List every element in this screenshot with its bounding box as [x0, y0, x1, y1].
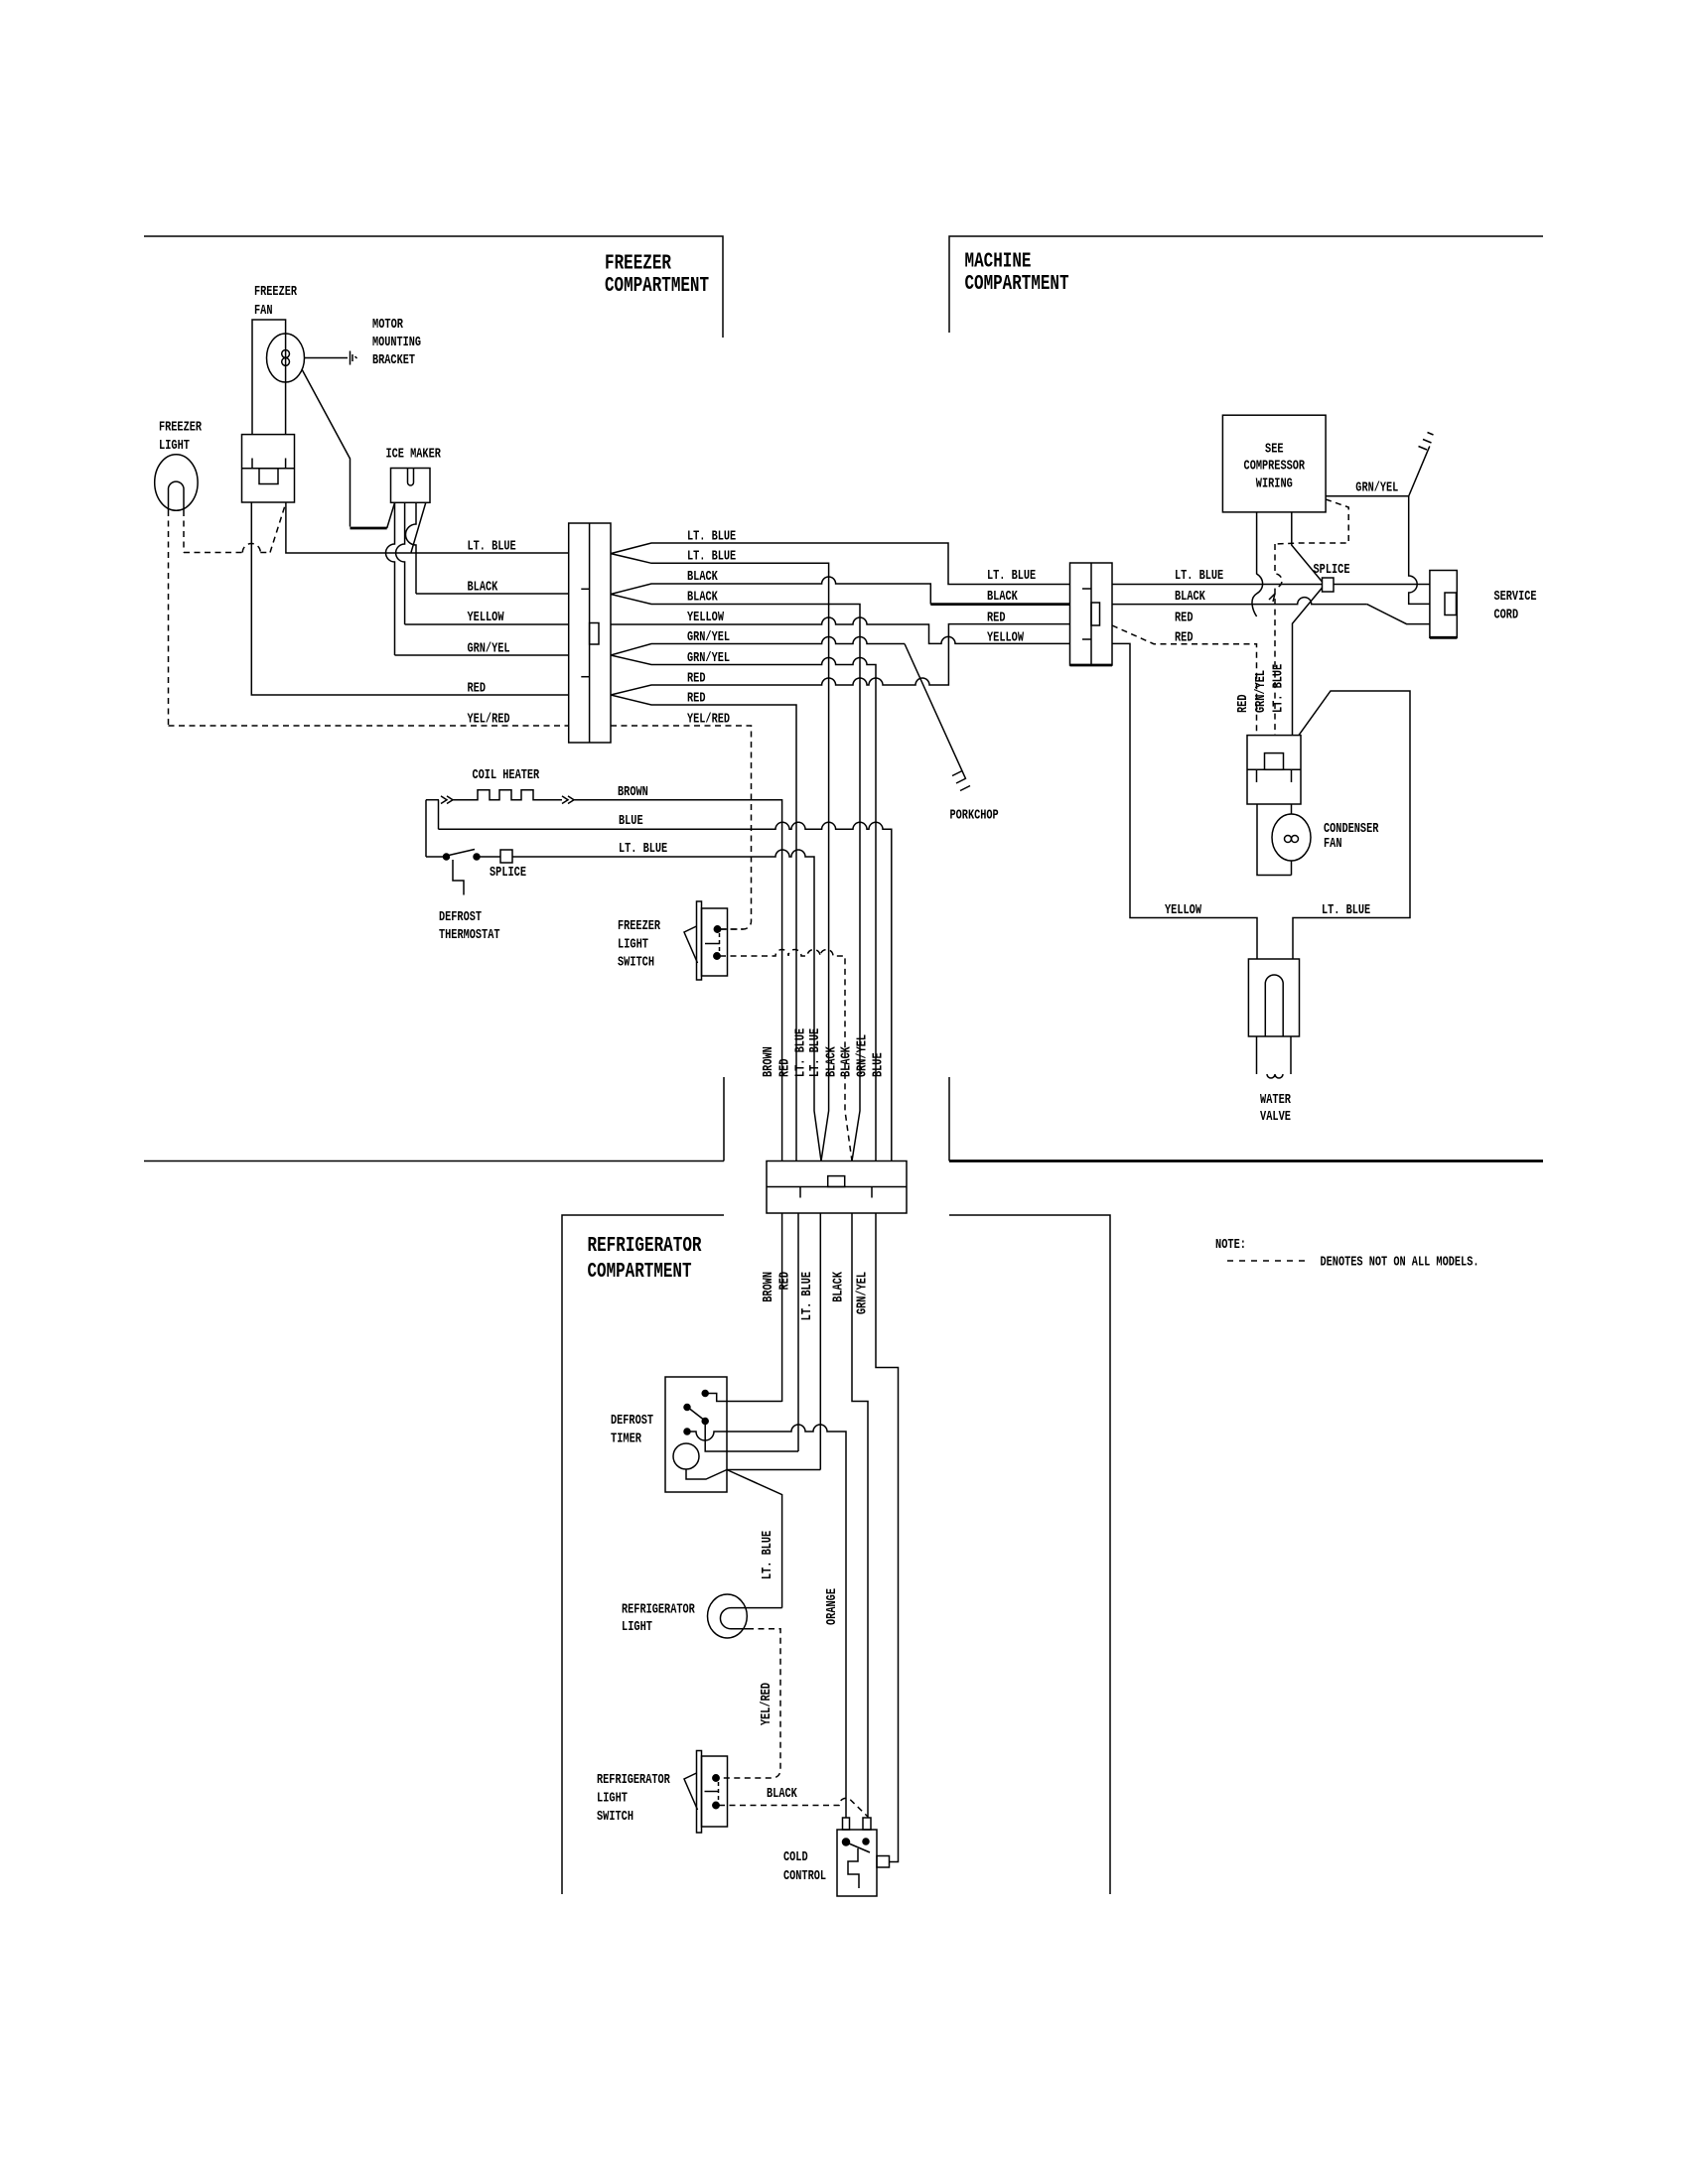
label RED left [468, 682, 487, 697]
wire freezer light switch top pin dashed [720, 928, 744, 930]
label DENOTES NOT ON ALL MODELS [1321, 1256, 1479, 1271]
refrigerator light L2 [622, 1594, 782, 1638]
label REFRIGERATOR COMPARTMENT [588, 1235, 702, 1284]
svg-text:COIL HEATER: COIL HEATER [473, 768, 540, 783]
svg-text:LT. BLUE: LT. BLUE [619, 842, 667, 857]
label LT. BLUE flag2 [687, 550, 736, 565]
svg-text:CONTROL: CONTROL [783, 1869, 826, 1884]
svg-text:NOTE:: NOTE: [1215, 1238, 1246, 1253]
note dashed sample [1227, 1260, 1309, 1262]
svg-text:LT. BLUE: LT. BLUE [761, 1531, 775, 1579]
label GRN/YEL flag1 [687, 630, 730, 645]
svg-text:CORD: CORD [1494, 609, 1519, 623]
wire LT. BLUE flag lower [611, 554, 829, 1161]
wire LT. BLUE flag upper [611, 543, 1070, 585]
svg-text:MOUNTING: MOUNTING [372, 336, 421, 350]
svg-text:FREEZER: FREEZER [254, 285, 298, 300]
wire BLUE [439, 800, 892, 1161]
svg-text:SERVICE: SERVICE [1494, 590, 1537, 605]
svg-text:BLACK: BLACK [1175, 590, 1205, 605]
wire GRN/YEL flag upper to porkchop [611, 637, 905, 656]
svg-text:LT. BLUE: LT. BLUE [808, 1028, 823, 1077]
svg-text:GRN/YEL: GRN/YEL [1254, 670, 1269, 713]
svg-text:WATER: WATER [1260, 1093, 1292, 1108]
svg-text:COMPRESSOR: COMPRESSOR [1244, 460, 1306, 475]
label LT. BLUE rot above2 [808, 1028, 823, 1077]
svg-text:YELLOW: YELLOW [687, 611, 725, 625]
svg-text:LIGHT: LIGHT [597, 1792, 628, 1807]
label YEL/RED rot [760, 1683, 774, 1725]
label BLUE rot above [871, 1052, 886, 1077]
label LT. BLUE left [468, 540, 516, 555]
wire LT. BLUE compressor loop [1293, 691, 1410, 959]
defrost timer box T1 [611, 1377, 727, 1492]
wire freezer light to fan relay (dashed) [184, 503, 286, 553]
svg-text:SWITCH: SWITCH [597, 1810, 633, 1825]
label YELLOW left [468, 611, 505, 625]
wire GRN/YEL compressor ground [1326, 433, 1433, 496]
svg-text:YELLOW: YELLOW [468, 611, 505, 625]
svg-text:CONDENSER: CONDENSER [1324, 822, 1379, 837]
svg-text:LIGHT: LIGHT [618, 938, 648, 953]
label LT. BLUE machine left [987, 569, 1036, 584]
label GRN/YEL left [468, 642, 510, 657]
label RED rot below [778, 1272, 793, 1291]
label GRN/YEL rot above [856, 1034, 871, 1077]
wire BLACK diagonal to service cord [1367, 605, 1430, 624]
svg-text:YEL/RED: YEL/RED [760, 1683, 774, 1725]
wire RED flag upper [611, 624, 1070, 695]
svg-text:LT. BLUE: LT. BLUE [1322, 903, 1370, 918]
svg-text:RED: RED [687, 672, 706, 687]
svg-text:DEFROST: DEFROST [439, 910, 482, 925]
wire YEL/RED right [611, 726, 752, 929]
connector J3 refrigerator harness [767, 1161, 907, 1214]
svg-text:MACHINE: MACHINE [965, 251, 1032, 274]
svg-text:COMPARTMENT: COMPARTMENT [588, 1261, 692, 1284]
svg-text:GRN/YEL: GRN/YEL [1355, 481, 1398, 496]
svg-text:BLUE: BLUE [619, 814, 643, 829]
wire YELLOW through [611, 617, 1070, 643]
porkchop lead [905, 644, 999, 824]
svg-text:REFRIGERATOR: REFRIGERATOR [597, 1773, 670, 1788]
svg-text:BLACK: BLACK [840, 1046, 855, 1077]
wire BLACK ice maker pin3 [406, 502, 569, 594]
wire BLACK flag lower [611, 595, 860, 1161]
svg-text:FAN: FAN [1324, 837, 1342, 852]
svg-text:BROWN: BROWN [618, 785, 648, 800]
svg-text:RED: RED [687, 692, 706, 707]
label LT. BLUE machine mid [1175, 569, 1223, 584]
wire LT. BLUE timer to connector [727, 1469, 820, 1471]
label ORANGE rot [825, 1588, 840, 1625]
label BLACK rot above2 [840, 1046, 855, 1077]
svg-text:LT. BLUE: LT. BLUE [687, 530, 736, 545]
svg-text:DENOTES NOT ON ALL MODELS.: DENOTES NOT ON ALL MODELS. [1321, 1256, 1479, 1271]
label RED flag1 [687, 672, 706, 687]
wire LT. BLUE coil circuit [426, 800, 821, 1161]
label NOTE [1215, 1238, 1246, 1253]
svg-text:COMPARTMENT: COMPARTMENT [605, 275, 709, 298]
splice on LT. BLUE [490, 850, 526, 881]
svg-text:DEFROST: DEFROST [611, 1414, 653, 1429]
svg-text:LT. BLUE: LT. BLUE [1175, 569, 1223, 584]
label RED rot above [778, 1059, 793, 1078]
label GRN/YEL flag2 [687, 651, 730, 666]
svg-text:VALVE: VALVE [1260, 1110, 1291, 1125]
wire BLACK flag upper [611, 577, 1070, 605]
svg-text:BLACK: BLACK [468, 581, 498, 596]
svg-text:RED: RED [468, 682, 487, 697]
wire BLACK below connector [852, 1213, 868, 1818]
svg-text:SEE: SEE [1265, 443, 1284, 458]
label RED flag2 [687, 692, 706, 707]
svg-text:YELLOW: YELLOW [1165, 903, 1202, 918]
svg-text:COMPARTMENT: COMPARTMENT [965, 273, 1069, 296]
svg-text:LT. BLUE: LT. BLUE [987, 569, 1036, 584]
svg-text:GRN/YEL: GRN/YEL [468, 642, 510, 657]
machine compartment border bottom [949, 1077, 1543, 1161]
wire BROWN below connector [781, 1213, 783, 1402]
wire GRN/YEL flag lower [611, 655, 876, 1161]
label YELLOW machine left [987, 631, 1025, 646]
wire bracket node heavy [351, 527, 387, 530]
label RED rot compressor [1236, 695, 1251, 714]
wire fan to bracket node [302, 369, 351, 527]
label RED machine mid [1175, 612, 1194, 626]
label YEL/RED left [468, 713, 510, 728]
svg-text:SPLICE: SPLICE [1314, 563, 1350, 578]
wire RED below connector [797, 1213, 799, 1451]
wire YELLOW machine right [1112, 643, 1257, 959]
svg-text:COLD: COLD [783, 1850, 808, 1865]
svg-text:BROWN: BROWN [762, 1272, 776, 1302]
see compressor wiring box [1222, 415, 1326, 512]
refrigerator compartment border [562, 1215, 1110, 1894]
wire GRN/YEL dashed from compressor box [1269, 499, 1348, 736]
label LT. BLUE flag1 [687, 530, 736, 545]
svg-text:BLACK: BLACK [767, 1787, 797, 1802]
label GRN/YEL rot compressor [1254, 670, 1269, 713]
cold control S4 [783, 1818, 890, 1896]
svg-text:LT. BLUE: LT. BLUE [800, 1272, 815, 1320]
label RED machine mid2 [1175, 631, 1194, 646]
ice maker A1 [386, 448, 442, 503]
label LT. BLUE rot below [800, 1272, 815, 1320]
defrost thermostat S1 [426, 850, 500, 944]
svg-text:WIRING: WIRING [1256, 478, 1293, 492]
wire GRN/YEL down to service cord [1409, 496, 1430, 605]
wire LT. BLUE from relay [286, 502, 569, 553]
label FREEZER COMPARTMENT [605, 253, 709, 299]
timer motor M2 [673, 1443, 727, 1479]
condenser fan M3 [1257, 804, 1379, 876]
wire LT. BLUE below connector [819, 1213, 821, 1470]
wire BLACK refrigerator light switch [719, 1787, 868, 1817]
label BLACK machine mid [1175, 590, 1205, 605]
svg-text:ICE MAKER: ICE MAKER [386, 448, 442, 463]
wire LT. BLUE splice to compressor relay [1293, 588, 1323, 736]
svg-text:LIGHT: LIGHT [622, 1620, 652, 1635]
timer pin 1 [702, 1391, 781, 1402]
svg-text:REFRIGERATOR: REFRIGERATOR [588, 1235, 702, 1258]
svg-text:BRACKET: BRACKET [372, 353, 415, 368]
freezer compartment border bottom [144, 1077, 724, 1161]
svg-text:RED: RED [778, 1272, 793, 1291]
svg-text:SWITCH: SWITCH [618, 956, 654, 971]
svg-text:RED: RED [778, 1059, 793, 1078]
svg-text:GRN/YEL: GRN/YEL [856, 1272, 871, 1314]
label BLACK left [468, 581, 498, 596]
wire LT. BLUE machine right [1112, 584, 1430, 586]
svg-text:MOTOR: MOTOR [372, 318, 404, 333]
svg-text:BLUE: BLUE [871, 1052, 886, 1077]
label GRN/YEL rot below [856, 1272, 871, 1314]
svg-text:LT. BLUE: LT. BLUE [1272, 664, 1287, 713]
svg-text:BLACK: BLACK [825, 1046, 840, 1077]
splice SP2 [1314, 563, 1350, 592]
compressor relay K2 [1247, 736, 1301, 804]
wire LT. BLUE timer to refrigerator light [727, 1470, 782, 1608]
svg-text:LIGHT: LIGHT [159, 439, 190, 454]
freezer fan motor M1 [252, 285, 305, 435]
wire RED dashed to compressor [1112, 625, 1257, 736]
svg-text:BLACK: BLACK [987, 590, 1018, 605]
svg-text:BROWN: BROWN [762, 1046, 776, 1077]
label BROWN rot above [762, 1046, 776, 1077]
label RED machine left [987, 612, 1006, 626]
svg-text:FAN: FAN [254, 304, 273, 319]
wire RED flag lower [611, 695, 796, 1161]
svg-text:BLACK: BLACK [687, 591, 718, 606]
label YEL/RED right [687, 713, 730, 728]
freezer compartment border top [144, 236, 723, 338]
svg-text:THERMOSTAT: THERMOSTAT [439, 928, 500, 943]
water valve V1 [1248, 959, 1299, 1125]
svg-text:YEL/RED: YEL/RED [468, 713, 510, 728]
wire GRN/YEL below connector [876, 1213, 899, 1862]
wire BROWN [574, 785, 782, 1161]
wire heavy to ice maker pin1 [387, 503, 395, 529]
svg-text:FREEZER: FREEZER [605, 253, 671, 276]
svg-text:GRN/YEL: GRN/YEL [687, 630, 730, 645]
svg-text:YEL/RED: YEL/RED [687, 713, 730, 728]
timer pin 2 switch arm [684, 1405, 703, 1420]
svg-text:PORKCHOP: PORKCHOP [950, 809, 999, 824]
label LT. BLUE rot timer [761, 1531, 775, 1579]
connector J1 freezer harness [569, 523, 611, 743]
machine compartment border top [949, 236, 1543, 333]
freezer light switch S2 [618, 901, 728, 980]
fan relay K1 [242, 435, 295, 502]
refrigerator light switch S3 [597, 1751, 728, 1834]
service cord P1 [1430, 571, 1537, 638]
svg-text:REFRIGERATOR: REFRIGERATOR [622, 1603, 695, 1618]
wire BLACK machine right [1112, 598, 1367, 605]
compressor box left lead squiggle [1252, 512, 1263, 616]
svg-text:LT. BLUE: LT. BLUE [794, 1028, 809, 1077]
label MACHINE COMPARTMENT [965, 251, 1069, 297]
label BLACK rot above1 [825, 1046, 840, 1077]
compressor box right lead to splice [1292, 512, 1323, 582]
svg-text:GRN/YEL: GRN/YEL [856, 1034, 871, 1077]
wire YELLOW ice maker pin2 [396, 502, 569, 624]
svg-text:FREEZER: FREEZER [618, 919, 661, 934]
svg-text:BLACK: BLACK [687, 570, 718, 585]
svg-text:RED: RED [987, 612, 1006, 626]
connector J2 machine harness [1070, 563, 1113, 665]
wire BLACK freezer light switch dashed [720, 950, 852, 1161]
svg-text:YELLOW: YELLOW [987, 631, 1025, 646]
wire YEL/RED [169, 725, 569, 727]
freezer light L1 [155, 421, 203, 511]
label BLACK flag2 [687, 591, 718, 606]
wire YEL/RED freezer light drop [168, 510, 170, 726]
label YELLOW right [687, 611, 725, 625]
label BLACK machine left [987, 590, 1018, 605]
svg-text:GRN/YEL: GRN/YEL [687, 651, 730, 666]
label LT. BLUE rot compressor [1272, 664, 1287, 713]
wire RED from relay [251, 502, 568, 695]
label BLACK rot below [832, 1271, 847, 1301]
svg-text:SPLICE: SPLICE [490, 866, 526, 881]
timer pin 3 to RED [702, 1419, 798, 1452]
svg-text:TIMER: TIMER [611, 1433, 642, 1447]
label LT. BLUE rot above1 [794, 1028, 809, 1077]
label YELLOW machine [1165, 903, 1202, 918]
coil heater R1 [426, 768, 574, 804]
svg-text:BLACK: BLACK [832, 1271, 847, 1301]
svg-text:LT. BLUE: LT. BLUE [468, 540, 516, 555]
label BLACK flag1 [687, 570, 718, 585]
svg-text:FREEZER: FREEZER [159, 421, 203, 436]
svg-text:RED: RED [1175, 612, 1194, 626]
svg-text:RED: RED [1236, 695, 1251, 714]
svg-text:ORANGE: ORANGE [825, 1588, 840, 1625]
wire ice maker pin4 to LT. BLUE [411, 502, 426, 552]
wire YEL/RED refrigerator light [719, 1629, 780, 1778]
label BROWN rot below [762, 1272, 776, 1302]
timer pin 4 to ORANGE [684, 1425, 846, 1818]
svg-text:LT. BLUE: LT. BLUE [687, 550, 736, 565]
wire GRN/YEL ice maker pin1 [386, 502, 569, 655]
motor mounting bracket [305, 318, 422, 368]
